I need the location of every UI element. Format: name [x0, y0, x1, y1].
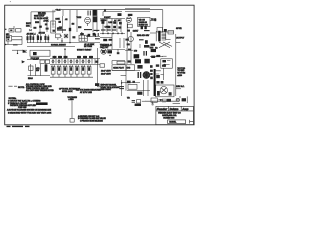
svg-text:NOTE:: NOTE:	[18, 87, 25, 89]
jack J4	[40, 60, 44, 64]
rectifier V5	[143, 72, 150, 79]
resistor R15	[13, 44, 18, 46]
wire drop x112	[111, 19, 113, 50]
tube V1 plate fill	[93, 16, 97, 22]
wire stubs above bus	[55, 56, 92, 59]
wire stubs up	[103, 32, 122, 34]
resistor R31	[64, 56, 68, 58]
resistor R5 cathode	[57, 29, 66, 31]
svg-text:C PRODUCTION RELEASE: C PRODUCTION RELEASE	[80, 120, 103, 123]
doghouse box 2	[126, 65, 135, 71]
resistor R16	[27, 35, 29, 43]
capacitor C34	[96, 33, 99, 37]
svg-text:ALL CAPS 600V UNLESS NOTED: ALL CAPS 600V UNLESS NOTED	[26, 89, 54, 92]
capacitor C36	[104, 19, 106, 21]
svg-text:7025: 7025	[76, 17, 82, 19]
capacitor C26 electrolytic	[82, 65, 84, 67]
jack lower contacts	[162, 65, 166, 67]
pot knobs row	[52, 60, 54, 62]
svg-text:FOOT SW: FOOT SW	[31, 58, 40, 60]
wire row y49	[107, 48, 125, 50]
wire drop x140	[139, 44, 141, 48]
resistor R1 68K	[38, 13, 46, 15]
stub box	[70, 119, 74, 123]
jack J3 mic box	[6, 36, 11, 41]
capacitor C16	[145, 40, 148, 44]
capacitor C22 electrolytic	[58, 65, 60, 67]
wire speaker feed vertical	[175, 34, 177, 96]
tube V2 socket pane	[79, 35, 87, 41]
wire row	[27, 59, 50, 61]
svg-text:SEE CHART: SEE CHART	[101, 88, 113, 91]
svg-text:5Y3: 5Y3	[127, 67, 130, 69]
tube V6	[128, 36, 133, 41]
svg-text:TO V3: TO V3	[151, 19, 156, 21]
capacitor C1	[88, 11, 90, 16]
wire drop x131b	[130, 48, 132, 64]
resistor R36	[156, 55, 160, 57]
wire drop x126	[125, 70, 127, 90]
capacitor C3	[118, 13, 122, 16]
resistor R2	[128, 14, 133, 16]
wire jack drop	[161, 68, 164, 80]
capacitor C25 electrolytic	[76, 65, 78, 67]
dark bar	[36, 102, 48, 105]
capacitor C18	[107, 50, 112, 53]
svg-text:BIAS: BIAS	[28, 77, 33, 80]
component blob	[46, 28, 49, 30]
resistor R13	[144, 30, 150, 32]
capacitor C2	[93, 10, 97, 16]
wire drop x65 top	[64, 48, 66, 59]
resistor R45	[150, 77, 153, 80]
wire grid x62	[62, 16, 64, 33]
note arrow left	[8, 85, 17, 87]
svg-text:AT 117V LINE: AT 117V LINE	[80, 91, 93, 94]
resistor R30	[58, 56, 62, 58]
wire row y56	[150, 56, 163, 58]
svg-text:± 20%: ± 20%	[69, 99, 74, 101]
svg-text:12AX7: 12AX7	[133, 29, 138, 32]
capacitor C31	[119, 22, 122, 24]
cluster left of riser	[150, 65, 153, 68]
capacitor C21 electrolytic	[52, 65, 54, 67]
transformer T2 power box	[156, 85, 174, 97]
model box	[168, 120, 186, 124]
capacitor C27 electrolytic	[88, 65, 90, 67]
jack J2	[16, 29, 21, 32]
fuse F1	[176, 98, 179, 101]
speck	[10, 0, 11, 3]
T2 winding block	[157, 91, 160, 96]
svg-text:Deluxe: Deluxe	[170, 107, 179, 111]
capacitor C29	[119, 87, 124, 89]
wire stub	[71, 101, 73, 119]
wire jack bottom	[12, 36, 22, 44]
ground wedge	[22, 60, 25, 63]
wire heater bus	[31, 10, 55, 28]
wire drop x124	[123, 38, 125, 48]
resistor R22	[47, 35, 49, 43]
svg-text:SCHEM 6G3: SCHEM 6G3	[163, 117, 174, 119]
wire PI bus	[50, 58, 100, 60]
resistor R21	[44, 34, 46, 43]
wire drop x121	[120, 19, 122, 33]
wire drop x103	[102, 19, 104, 33]
transformer T1 secondary winding	[162, 32, 166, 40]
wire drop x127	[126, 48, 128, 64]
svg-text:1W: 1W	[36, 70, 39, 72]
terminal box	[117, 61, 125, 64]
wire grid x127	[126, 22, 128, 48]
svg-text:1M: 1M	[72, 23, 75, 25]
resistor R29	[53, 56, 57, 58]
resistor R35	[151, 56, 155, 58]
resistor R32	[77, 56, 81, 58]
potentiometer VR1 volume	[56, 34, 61, 38]
wire drop x97	[98, 80, 101, 87]
capacitor C10	[141, 26, 143, 29]
wire tremolo bus	[100, 33, 125, 35]
tube V3	[126, 17, 131, 22]
component	[137, 92, 142, 95]
resistor R38 vertical	[45, 64, 48, 71]
capacitor C7	[108, 26, 111, 28]
wire plate drop V2	[76, 10, 78, 32]
wire drop x121	[121, 80, 123, 96]
resistor R44	[128, 60, 131, 62]
wire bus segment upper	[125, 8, 150, 10]
svg-text:20uF 450V: 20uF 450V	[101, 74, 111, 76]
component	[95, 83, 99, 86]
svg-text:.05 250K .1: .05 250K .1	[26, 34, 35, 36]
resistor R42	[127, 43, 130, 45]
svg-text:NORM CH: NORM CH	[139, 24, 149, 26]
wire drops	[144, 80, 149, 96]
choke CH1 lower	[135, 59, 141, 63]
speaker jack contacts	[162, 60, 166, 62]
resistor R7	[78, 26, 81, 28]
terminal box	[100, 64, 105, 67]
wire bus segment lower	[125, 11, 150, 13]
switch SW1	[182, 98, 186, 101]
svg-text:12AX7: 12AX7	[104, 16, 111, 19]
resistor R40	[59, 26, 62, 28]
wire bias bottom	[28, 75, 51, 77]
resistor R25	[139, 39, 144, 41]
wire jack top	[12, 35, 22, 37]
svg-text:470: 470	[134, 51, 137, 53]
svg-text:A NOTICE VOLTAGES SHOWN ON: A NOTICE VOLTAGES SHOWN ON DIAGRAM ARE	[7, 109, 52, 112]
wire to title	[173, 102, 180, 104]
resistor R43	[128, 49, 131, 51]
svg-text:SANTA ANA CAL: SANTA ANA CAL	[162, 114, 176, 117]
terminal box	[168, 31, 174, 34]
cap row	[132, 100, 135, 102]
svg-text:±20%: ±20%	[177, 75, 182, 77]
wire row y70	[112, 69, 140, 71]
switch SW2 box	[30, 50, 50, 56]
svg-text:MIC: MIC	[26, 26, 30, 28]
wire grid V1	[39, 16, 41, 32]
wire wiper	[61, 38, 63, 43]
svg-text:Amp: Amp	[181, 107, 188, 111]
wire mid row	[86, 35, 100, 37]
capacitor C4	[39, 26, 42, 28]
wire drop x131	[130, 32, 132, 48]
wire secondary out	[163, 28, 174, 40]
jack contacts	[10, 30, 12, 32]
svg-text:MODEL: MODEL	[169, 122, 176, 124]
fuse bits	[127, 81, 131, 84]
capacitor C30	[58, 21, 61, 23]
wire plate drop V1	[52, 10, 54, 26]
resistor R28	[33, 58, 38, 60]
capacitor C19	[144, 51, 146, 56]
capacitor C15	[103, 39, 107, 41]
svg-text:NORMAL BRIGHT: NORMAL BRIGHT	[51, 43, 67, 46]
resistor R18	[32, 35, 34, 43]
capacitor C28	[138, 72, 140, 78]
resistor R11	[112, 29, 116, 31]
transformer T1 output primary lead	[150, 31, 156, 41]
capacitor C6	[101, 21, 104, 24]
resistor R34	[89, 56, 93, 58]
wire drop to bus	[69, 10, 71, 43]
wire to output	[150, 20, 156, 22]
resistor R33	[83, 56, 87, 58]
svg-text:.02: .02	[65, 19, 68, 21]
svg-text:B MEASURED WITH VTVM AND: B MEASURED WITH VTVM AND MAY VARY ±20%	[8, 111, 52, 114]
channel box	[138, 17, 150, 26]
bias network verticals	[31, 64, 47, 76]
svg-text:20uF 450V: 20uF 450V	[101, 70, 111, 72]
wire drop x118	[117, 49, 119, 53]
wire coupling row	[100, 18, 125, 20]
resistor R24	[95, 38, 100, 40]
wire feed	[100, 37, 112, 39]
transformer T1 core	[158, 31, 160, 42]
resistor R19	[37, 34, 39, 43]
wire row y90	[127, 90, 150, 92]
capacitor C23 electrolytic	[64, 65, 66, 67]
title block frame	[156, 106, 194, 124]
svg-text:SPKR JACK: SPKR JACK	[62, 90, 73, 93]
wire row y50	[125, 49, 133, 51]
T2 lamp circle	[160, 87, 167, 94]
resistor R4	[35, 21, 39, 23]
resistor R9	[101, 29, 106, 31]
caption below border	[7, 125, 30, 127]
svg-text:115V A.C.: 115V A.C.	[176, 85, 185, 88]
wire grid V1b	[46, 16, 48, 32]
right bottom components	[151, 98, 157, 102]
capacitor C12	[164, 29, 167, 32]
cluster above jack	[156, 64, 159, 66]
title divider 1	[156, 110, 193, 112]
node bus dot	[69, 42, 70, 43]
jack J1	[5, 29, 6, 30]
capacitor C13	[88, 34, 91, 37]
jack J5	[45, 60, 49, 64]
tube V4	[101, 49, 107, 55]
wires right of riser	[155, 71, 161, 74]
svg-text:1M TONE: 1M TONE	[84, 46, 93, 48]
capacitor C24 electrolytic	[70, 65, 72, 67]
svg-text:10M: 10M	[109, 40, 113, 42]
wire row y82	[122, 82, 140, 84]
wire dash	[176, 42, 180, 44]
capacitor C17	[33, 52, 37, 55]
capacitor C11	[144, 26, 146, 29]
svg-text:.02: .02	[118, 20, 121, 22]
power riser thick	[154, 69, 156, 96]
node dot	[5, 44, 6, 45]
svg-text:GZ34 PILOT: GZ34 PILOT	[113, 67, 125, 69]
speaker jack box	[161, 59, 173, 68]
resistor R17	[30, 35, 32, 43]
capacitor C14	[93, 33, 96, 36]
resistor R8	[94, 29, 100, 31]
svg-text:470K: 470K	[43, 20, 49, 22]
resistor R27b	[150, 47, 154, 49]
wire V1 cathode	[92, 10, 94, 32]
capacitor C20	[144, 59, 149, 64]
node dots on bus	[102, 33, 103, 34]
resistor R49	[45, 23, 48, 25]
ground arrow	[23, 50, 28, 53]
resistor R48	[127, 30, 130, 32]
wire bus B	[27, 46, 75, 48]
bottom right tick	[190, 120, 194, 124]
resistor R27	[150, 44, 155, 46]
title cell divider A	[168, 106, 170, 111]
resistor R46	[72, 36, 75, 38]
svg-text:25K 1M: 25K 1M	[39, 32, 46, 34]
wire stub y75	[121, 75, 126, 77]
wire mains run	[145, 100, 176, 102]
wire drop	[17, 50, 19, 53]
title cell divider B	[180, 106, 182, 111]
wire screen feed	[103, 12, 122, 16]
svg-text:100K: 100K	[55, 19, 60, 21]
svg-text:3.3M: 3.3M	[108, 22, 112, 24]
tube V1 7025	[85, 17, 91, 23]
wire comb drops	[53, 59, 98, 64]
coupling cap C35	[64, 34, 68, 38]
resistor R26	[144, 45, 149, 48]
standby switch dark box	[151, 49, 156, 52]
svg-text:SPKR: SPKR	[176, 28, 182, 30]
svg-text:6V6GT 6V6GT: 6V6GT 6V6GT	[77, 49, 92, 51]
resistor R37	[29, 66, 33, 70]
wire row y60	[112, 61, 125, 65]
svg-text:BIAS ADJ 45V: BIAS ADJ 45V	[137, 34, 150, 37]
resistor R20	[40, 34, 42, 43]
resistor R14	[157, 28, 163, 32]
choke CH1	[134, 54, 140, 58]
doghouse box	[112, 65, 126, 71]
T2 label row	[156, 81, 159, 84]
svg-text:OUTPUT: OUTPUT	[176, 37, 185, 39]
wire input arrow	[29, 29, 32, 31]
wire left run	[12, 49, 27, 51]
capacitor C8	[113, 21, 116, 24]
resistor R50	[95, 61, 98, 63]
resistor R12	[128, 24, 133, 28]
switch box	[128, 84, 137, 89]
wire drop	[62, 10, 64, 16]
svg-text:TB: TB	[127, 98, 130, 100]
diode bits	[137, 65, 142, 69]
capacitor C33	[160, 99, 162, 101]
wire dash	[162, 55, 166, 57]
wire V1 grid	[96, 10, 98, 32]
wire crossover diagonals	[159, 42, 172, 48]
node tick	[154, 20, 156, 22]
resistor R47	[33, 27, 36, 29]
wire filter bottom bus	[50, 76, 93, 78]
resistor R6 plate	[84, 29, 92, 31]
capacitor C9	[113, 26, 116, 28]
wire bus A	[27, 42, 100, 44]
wire filter top bus	[50, 64, 100, 66]
wire ground run	[5, 44, 22, 46]
potentiometer VR2 tone	[51, 21, 56, 33]
capacitor C32	[118, 26, 121, 28]
ground symbol	[151, 102, 154, 105]
node junction arrow	[104, 9, 106, 11]
wire drop x117	[116, 19, 118, 33]
svg-text:68K 68K: 68K 68K	[38, 13, 46, 15]
resistor R41	[125, 39, 128, 41]
wire drop x107	[106, 19, 108, 33]
svg-text:R1 R2 1M: R1 R2 1M	[34, 18, 43, 20]
wire drop x120	[119, 38, 121, 48]
wire B+ top bus	[55, 10, 163, 28]
resistor R10	[107, 29, 111, 31]
capacitor C5	[69, 28, 71, 31]
wire drop x97 top	[97, 48, 99, 80]
